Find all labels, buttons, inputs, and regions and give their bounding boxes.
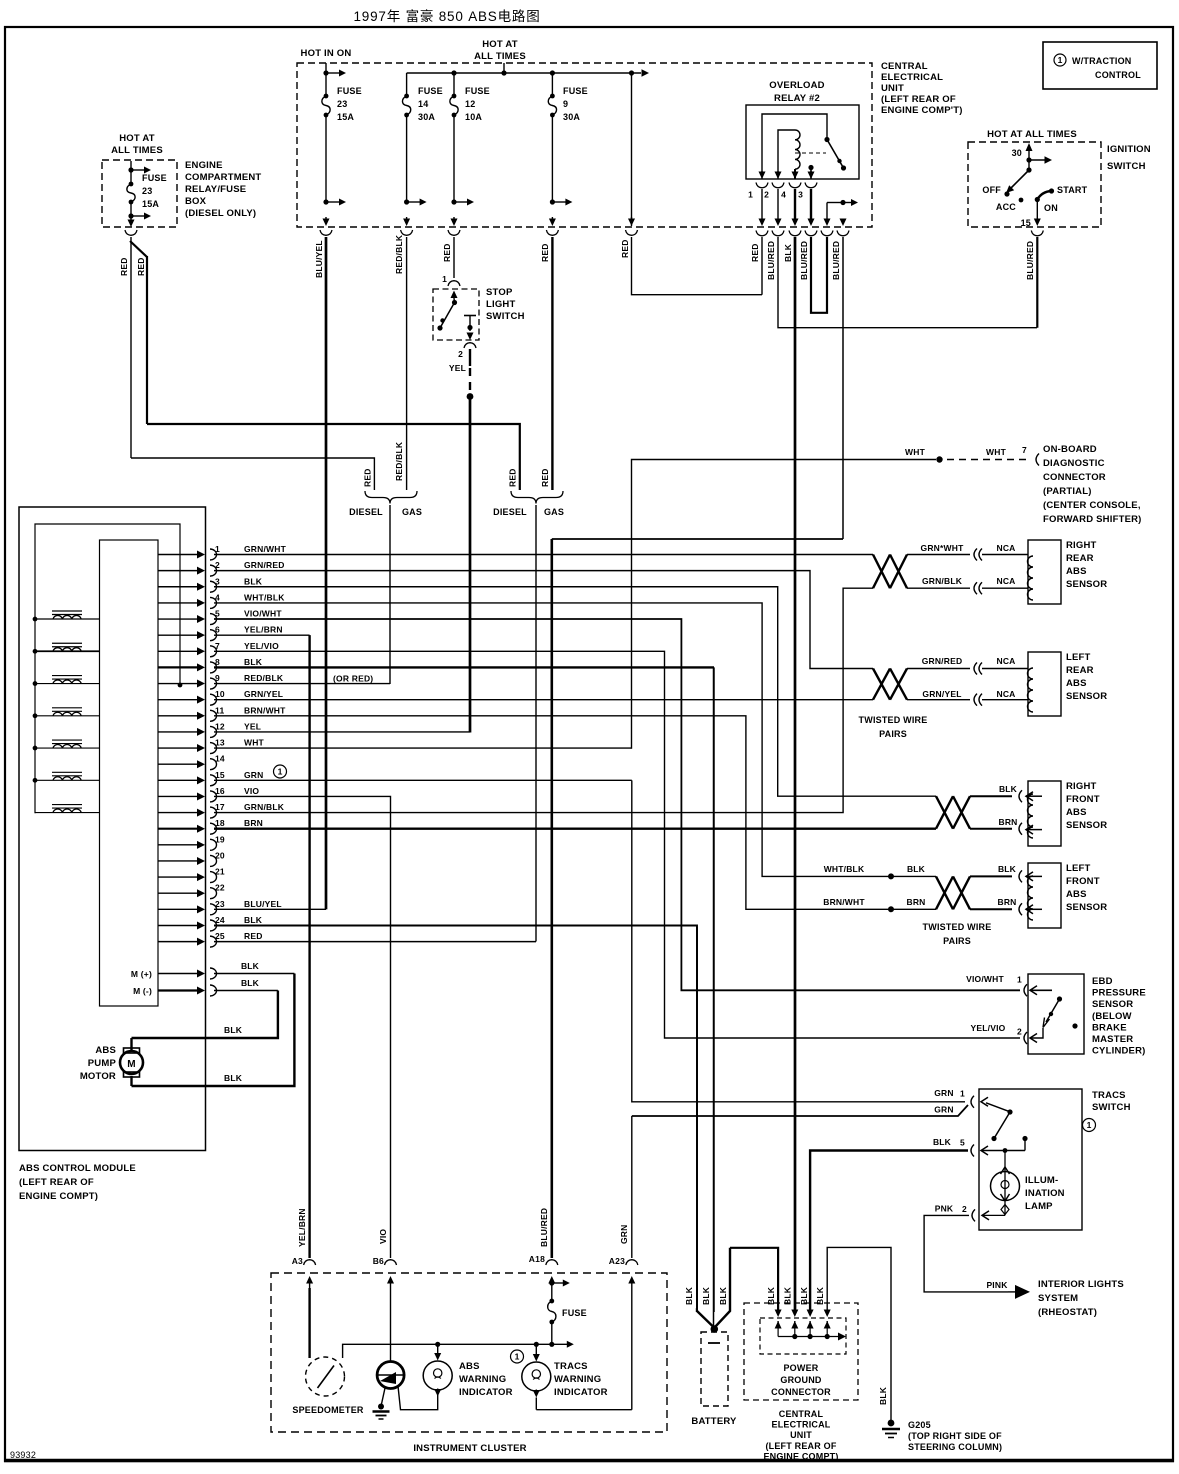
cluster fuse	[549, 1299, 554, 1304]
wire RED/BLK row9	[214, 683, 390, 685]
solenoid valve coil (row 9)	[33, 681, 38, 686]
svg-text:(RHEOSTAT): (RHEOSTAT)	[1038, 1307, 1097, 1318]
relay switch arm	[827, 140, 844, 169]
svg-text:VIO/WHT: VIO/WHT	[244, 609, 282, 619]
svg-text:ENGINE COMP'T): ENGINE COMP'T)	[881, 105, 963, 116]
stop light switch contact arm	[453, 295, 455, 299]
twisted pair right rear	[873, 555, 907, 589]
svg-text:POWER: POWER	[783, 1363, 818, 1373]
wire BLU/YEL row23	[214, 908, 326, 910]
svg-text:BLK: BLK	[244, 576, 263, 586]
svg-text:9: 9	[563, 99, 568, 109]
svg-text:10A: 10A	[465, 112, 482, 122]
wire BLK pin4/G205 bridge	[827, 1247, 891, 1421]
svg-text:30A: 30A	[563, 112, 580, 122]
wire RED feed to relay pin 1	[631, 73, 633, 226]
svg-text:GRN/RED: GRN/RED	[922, 656, 963, 666]
svg-text:SENSOR: SENSOR	[1066, 902, 1107, 913]
ABS pin 4	[158, 602, 199, 604]
svg-text:GRN/WHT: GRN/WHT	[244, 544, 287, 554]
svg-text:SENSOR: SENSOR	[1066, 691, 1107, 702]
wire WHT/BLK row4	[214, 603, 936, 877]
svg-text:2: 2	[1017, 1027, 1022, 1037]
svg-text:GAS: GAS	[544, 507, 564, 517]
svg-text:RED: RED	[119, 257, 129, 276]
svg-text:17: 17	[215, 802, 225, 812]
svg-text:MASTER: MASTER	[1092, 1034, 1133, 1045]
svg-text:5: 5	[960, 1138, 965, 1148]
EBD internal switch	[1030, 1028, 1043, 1038]
svg-text:BLK: BLK	[799, 1286, 809, 1305]
TRACS pin 1 GRN	[971, 1096, 974, 1108]
svg-text:BLU/YEL: BLU/YEL	[244, 899, 282, 909]
svg-text:RED: RED	[750, 243, 760, 262]
svg-text:30: 30	[1012, 148, 1022, 158]
ABS pin 2	[158, 570, 199, 572]
svg-text:M (-): M (-)	[133, 986, 152, 996]
svg-text:25: 25	[215, 931, 225, 941]
svg-text:1: 1	[215, 544, 220, 554]
svg-text:RED/BLK: RED/BLK	[394, 441, 404, 481]
svg-text:BLK: BLK	[718, 1286, 728, 1305]
wire WHT to diagnostic connector	[632, 460, 937, 749]
wire RED row25	[214, 941, 536, 943]
svg-text:WHT: WHT	[905, 447, 926, 457]
svg-text:BRN: BRN	[244, 818, 263, 828]
ABS pin 9	[158, 683, 199, 685]
svg-text:SENSOR: SENSOR	[1066, 579, 1107, 590]
relay pin 2 wire BLU/RED to ignition	[777, 189, 779, 222]
svg-text:ABS CONTROL MODULE: ABS CONTROL MODULE	[19, 1163, 136, 1174]
svg-text:UNIT: UNIT	[881, 83, 904, 94]
svg-text:2: 2	[215, 560, 220, 570]
svg-text:14: 14	[215, 754, 225, 764]
svg-text:12: 12	[465, 99, 475, 109]
svg-text:BRN: BRN	[998, 817, 1017, 827]
svg-text:OFF: OFF	[982, 185, 1001, 195]
svg-text:DIESEL: DIESEL	[493, 507, 527, 517]
svg-text:FUSE: FUSE	[563, 86, 588, 96]
svg-text:1: 1	[748, 190, 753, 200]
ABS module connector body box	[100, 540, 159, 1006]
svg-text:BRN: BRN	[906, 897, 925, 907]
ABS pin 24	[158, 924, 199, 926]
svg-text:BLK: BLK	[766, 1286, 776, 1305]
wire GRN/RED row2	[214, 571, 873, 669]
svg-text:INDICATOR: INDICATOR	[459, 1387, 513, 1398]
svg-text:7: 7	[1022, 445, 1027, 455]
svg-text:BLU/RED: BLU/RED	[766, 241, 776, 280]
svg-text:FUSE: FUSE	[465, 86, 490, 96]
svg-text:GRN: GRN	[619, 1225, 629, 1245]
wire RED from fuse 12 to stop light switch	[453, 237, 455, 278]
svg-text:2: 2	[962, 1204, 967, 1214]
ABS module inner boundary	[35, 524, 180, 813]
svg-text:START: START	[1057, 185, 1088, 195]
svg-text:UNIT: UNIT	[790, 1430, 812, 1440]
svg-text:CONNECTOR: CONNECTOR	[1043, 472, 1106, 483]
svg-text:PAIRS: PAIRS	[943, 936, 971, 946]
relay internal: pin1 riser and top rail to switch contact	[762, 114, 827, 179]
svg-text:SYSTEM: SYSTEM	[1038, 1293, 1078, 1304]
svg-text:RED: RED	[363, 468, 373, 487]
wire RED/BLK from fuse 14	[406, 237, 408, 490]
svg-text:TWISTED WIRE: TWISTED WIRE	[859, 715, 928, 725]
svg-text:LIGHT: LIGHT	[486, 299, 516, 310]
svg-text:BLK: BLK	[224, 1025, 243, 1035]
svg-text:10: 10	[215, 689, 225, 699]
solenoid valve coil (row 13)	[33, 746, 38, 751]
svg-text:PRESSURE: PRESSURE	[1092, 988, 1146, 999]
svg-text:CONTROL: CONTROL	[1095, 70, 1141, 80]
EBD pressure sensor box	[1028, 974, 1084, 1054]
ABS pin 11	[158, 715, 199, 717]
svg-text:ON: ON	[1044, 203, 1058, 213]
svg-text:GRN/RED: GRN/RED	[244, 560, 285, 570]
svg-text:CYLINDER): CYLINDER)	[1092, 1046, 1146, 1057]
svg-text:GROUND: GROUND	[780, 1375, 821, 1385]
solenoid valve coil (row 7)	[33, 649, 38, 654]
svg-text:WHT: WHT	[244, 738, 265, 748]
svg-text:BLK: BLK	[998, 864, 1017, 874]
svg-text:15: 15	[215, 770, 225, 780]
svg-text:ALL TIMES: ALL TIMES	[111, 145, 163, 156]
svg-text:BLK: BLK	[815, 1286, 825, 1305]
wire VIO/WHT row5 to EBD	[214, 619, 1020, 990]
svg-text:HOT AT ALL TIMES: HOT AT ALL TIMES	[987, 129, 1077, 140]
svg-text:2: 2	[764, 190, 769, 200]
relay pin 3 wire BLU/RED u-turn	[810, 189, 812, 222]
relay mechanical link dashed	[795, 152, 826, 154]
svg-text:8: 8	[215, 657, 220, 667]
svg-text:ABS: ABS	[1066, 807, 1087, 818]
svg-text:YEL/BRN: YEL/BRN	[244, 625, 283, 635]
ABS pin 21	[158, 876, 199, 878]
svg-text:BLU/RED: BLU/RED	[1025, 241, 1035, 280]
svg-text:BRN/WHT: BRN/WHT	[823, 897, 865, 907]
battery to power ground pin1 bridge	[730, 1248, 778, 1312]
solenoid valve coil (row 5)	[33, 617, 38, 622]
svg-text:1: 1	[515, 1352, 520, 1362]
ground G205	[888, 1420, 895, 1427]
ABS pin 8	[158, 666, 199, 668]
svg-text:VIO: VIO	[244, 786, 259, 796]
svg-text:A3: A3	[292, 1256, 303, 1266]
power ground pin wire x=794.8	[794, 1312, 796, 1313]
ABS pin 10	[158, 699, 199, 701]
svg-text:1: 1	[1087, 1120, 1092, 1130]
ABS pin 18	[158, 828, 199, 830]
wire BLK M(+)	[214, 973, 294, 975]
svg-text:A18: A18	[529, 1254, 545, 1264]
svg-text:LEFT: LEFT	[1066, 863, 1091, 874]
traction note circled 1 (pin 15)	[274, 765, 287, 778]
svg-text:BLU/RED: BLU/RED	[799, 241, 809, 280]
svg-text:23: 23	[337, 99, 347, 109]
wire RED fuse 9 down	[551, 237, 553, 490]
connector below engine box	[125, 230, 137, 235]
svg-text:GRN: GRN	[934, 1088, 954, 1098]
TRACS warning indicator	[511, 1350, 524, 1363]
svg-text:RED/BLK: RED/BLK	[244, 673, 284, 683]
svg-text:BRAKE: BRAKE	[1092, 1022, 1127, 1033]
svg-text:BLK: BLK	[907, 864, 926, 874]
svg-text:15: 15	[1021, 218, 1031, 228]
svg-text:(LEFT REAR OF: (LEFT REAR OF	[765, 1441, 836, 1451]
battery box	[701, 1332, 728, 1406]
svg-text:TRACS: TRACS	[1092, 1090, 1126, 1101]
svg-text:BLK: BLK	[241, 978, 260, 988]
W/TRACTION CONTROL legend box	[1043, 42, 1157, 89]
svg-text:ABS: ABS	[1066, 566, 1087, 577]
svg-text:ILLUM-: ILLUM-	[1025, 1175, 1058, 1186]
svg-text:GRN/BLK: GRN/BLK	[244, 802, 285, 812]
svg-text:INSTRUMENT CLUSTER: INSTRUMENT CLUSTER	[413, 1443, 526, 1454]
svg-text:FUSE: FUSE	[562, 1308, 587, 1318]
svg-text:GAS: GAS	[402, 507, 422, 517]
svg-text:BATTERY: BATTERY	[691, 1416, 737, 1427]
svg-text:RIGHT: RIGHT	[1066, 540, 1097, 551]
svg-text:(CENTER CONSOLE,: (CENTER CONSOLE,	[1043, 500, 1141, 511]
speedometer	[306, 1357, 345, 1396]
twisted pair left rear	[873, 669, 907, 700]
left rear ABS sensor	[1028, 652, 1061, 716]
svg-text:M (+): M (+)	[131, 969, 152, 979]
svg-text:NCA: NCA	[996, 576, 1015, 586]
overload relay #2 box	[746, 105, 859, 179]
ABS pin 16	[158, 795, 199, 797]
svg-text:ACC: ACC	[996, 202, 1016, 212]
ABS pin 3	[158, 586, 199, 588]
svg-text:13: 13	[215, 738, 225, 748]
wire YEL/VIO row7 to EBD	[214, 651, 1020, 1038]
svg-text:BLK: BLK	[244, 915, 263, 925]
svg-text:15A: 15A	[337, 112, 354, 122]
svg-text:4: 4	[781, 190, 786, 200]
central unit internal junction with arrow	[827, 202, 843, 204]
svg-text:ABS: ABS	[459, 1361, 480, 1372]
TRACS switch internals	[986, 1103, 1010, 1112]
svg-text:BRN/WHT: BRN/WHT	[244, 705, 286, 715]
svg-text:INATION: INATION	[1025, 1188, 1065, 1199]
ABS pin 22	[158, 892, 199, 894]
svg-text:RED: RED	[442, 243, 452, 262]
svg-text:BLK: BLK	[241, 961, 260, 971]
fuse 23 15A	[323, 70, 328, 75]
svg-text:BLK: BLK	[878, 1386, 888, 1405]
ABS pin 5	[158, 618, 199, 620]
svg-text:W/TRACTION: W/TRACTION	[1072, 56, 1132, 66]
svg-text:(TOP RIGHT SIDE OF: (TOP RIGHT SIDE OF	[908, 1431, 1002, 1441]
svg-text:5: 5	[215, 609, 220, 619]
ABS pin 20	[158, 860, 199, 862]
svg-text:FRONT: FRONT	[1066, 876, 1100, 887]
instrument cluster dashed box	[271, 1273, 667, 1432]
svg-text:GRN: GRN	[244, 770, 264, 780]
svg-text:FUSE: FUSE	[337, 86, 362, 96]
svg-text:30A: 30A	[418, 112, 435, 122]
svg-text:NCA: NCA	[996, 543, 1015, 553]
svg-text:WARNING: WARNING	[554, 1374, 601, 1385]
svg-text:GRN*WHT: GRN*WHT	[921, 543, 965, 553]
svg-text:4: 4	[215, 592, 220, 602]
svg-text:SWITCH: SWITCH	[1107, 161, 1146, 172]
stop light switch dashed box	[433, 289, 479, 340]
svg-text:BLK: BLK	[684, 1286, 694, 1305]
svg-text:BLK: BLK	[701, 1286, 711, 1305]
svg-text:YEL/BRN: YEL/BRN	[297, 1208, 307, 1247]
svg-text:BLK: BLK	[244, 657, 263, 667]
svg-text:1: 1	[278, 767, 283, 777]
svg-text:SWITCH: SWITCH	[1092, 1102, 1131, 1113]
power ground connector outer dashed box	[744, 1303, 858, 1400]
svg-text:NCA: NCA	[996, 689, 1015, 699]
svg-text:21: 21	[215, 867, 225, 877]
engine compartment relay/fuse box	[102, 160, 177, 227]
svg-text:COMPARTMENT: COMPARTMENT	[185, 172, 261, 183]
svg-text:STOP: STOP	[486, 287, 513, 298]
svg-text:VIO/WHT: VIO/WHT	[966, 974, 1004, 984]
power ground pin wire x=810.1	[809, 1312, 811, 1313]
solenoid valve coil (row 11)	[33, 713, 38, 718]
feed tick below ALL TIMES label	[503, 63, 505, 73]
ABS pin 12	[158, 731, 199, 733]
svg-text:ENGINE COMPT): ENGINE COMPT)	[763, 1451, 838, 1461]
svg-text:22: 22	[215, 883, 225, 893]
svg-text:3: 3	[215, 576, 220, 586]
wire RED horizontal y458 to diesel bracket left	[131, 458, 374, 490]
ABS pump motor	[130, 1038, 132, 1051]
svg-text:9: 9	[215, 673, 220, 683]
svg-text:CENTRAL: CENTRAL	[779, 1409, 824, 1419]
svg-text:INDICATOR: INDICATOR	[554, 1387, 608, 1398]
wire YEL thick to pin 12	[469, 396, 472, 733]
relay coil	[778, 130, 795, 179]
twisted pair left front	[936, 876, 970, 909]
svg-text:12: 12	[215, 721, 225, 731]
wire GRN/BLK row17	[214, 588, 873, 812]
svg-text:BLU/YEL: BLU/YEL	[314, 240, 324, 278]
ABS warning indicator	[437, 1344, 439, 1353]
svg-text:DIAGNOSTIC: DIAGNOSTIC	[1043, 458, 1105, 469]
stop light switch pin2 terminal	[464, 315, 476, 317]
svg-text:(LEFT REAR OF: (LEFT REAR OF	[19, 1177, 94, 1188]
wire YEL row12	[214, 731, 470, 733]
second GRN wire to A23	[632, 1105, 968, 1116]
wire YEL dashed option segment	[469, 349, 471, 366]
fuse 12 10A	[453, 73, 455, 96]
svg-text:MOTOR: MOTOR	[80, 1071, 116, 1082]
svg-text:TWISTED WIRE: TWISTED WIRE	[923, 922, 992, 932]
svg-text:REAR: REAR	[1066, 553, 1094, 564]
svg-text:BLK: BLK	[999, 784, 1018, 794]
fuse 14 30A	[406, 73, 408, 96]
svg-text:RED: RED	[508, 468, 518, 487]
ignition terminal 15 wire BLU/RED	[1036, 200, 1038, 219]
svg-text:DIESEL: DIESEL	[349, 507, 383, 517]
svg-text:1997年 富豪 850 ABS电路图: 1997年 富豪 850 ABS电路图	[353, 8, 540, 24]
svg-text:14: 14	[418, 99, 428, 109]
relay pin 1 wire RED	[761, 189, 763, 222]
svg-text:20: 20	[215, 850, 225, 860]
svg-text:GRN/BLK: GRN/BLK	[922, 576, 963, 586]
wire BRN row18 to right front sensor	[214, 828, 936, 830]
svg-text:23: 23	[142, 186, 152, 196]
svg-text:RED: RED	[620, 239, 630, 258]
ABS pin 13	[158, 747, 199, 749]
solenoid valve coil (row 17)	[35, 812, 100, 814]
ABS pin 1	[158, 554, 199, 556]
wire YEL/BRN row6 to cluster A3	[214, 634, 310, 636]
svg-text:ALL TIMES: ALL TIMES	[474, 51, 526, 62]
svg-text:STEERING COLUMN): STEERING COLUMN)	[908, 1442, 1002, 1452]
svg-text:M: M	[127, 1059, 136, 1070]
wire PNK to interior lights	[924, 1215, 1008, 1292]
wire GRN/YEL row10 to left rear sensor	[214, 699, 873, 701]
ignition ON contact	[1035, 197, 1040, 202]
central electrical unit dashed box	[297, 63, 872, 227]
svg-text:WHT: WHT	[986, 447, 1007, 457]
right front ABS sensor	[1028, 781, 1061, 846]
svg-text:RED: RED	[244, 931, 263, 941]
svg-text:PINK: PINK	[986, 1280, 1008, 1290]
wire GRN row15 to TRACS switch	[214, 779, 632, 781]
svg-text:YEL/VIO: YEL/VIO	[971, 1023, 1006, 1033]
svg-text:ABS: ABS	[95, 1045, 116, 1056]
ABS pin 6	[158, 634, 199, 636]
svg-text:SENSOR: SENSOR	[1066, 820, 1107, 831]
ABS pin 17	[158, 812, 199, 814]
power ground connector inner dashed box	[760, 1318, 846, 1354]
svg-text:FORWARD SHIFTER): FORWARD SHIFTER)	[1043, 514, 1142, 525]
wire BLK row8 to battery	[214, 666, 714, 668]
wire RED (diesel col 2)	[130, 241, 147, 257]
wire merged RED to pin 25	[535, 505, 537, 942]
ABS control module outer box	[19, 507, 206, 1151]
svg-text:SENSOR: SENSOR	[1092, 999, 1133, 1010]
svg-text:BLK: BLK	[933, 1137, 952, 1147]
power ground internal bus	[778, 1336, 838, 1338]
svg-text:19: 19	[215, 834, 225, 844]
svg-text:GRN: GRN	[934, 1105, 954, 1115]
svg-text:BLU/RED: BLU/RED	[831, 241, 841, 280]
wire BLU/RED from central unit to instrument cluster A18	[842, 221, 844, 223]
wire BRN/WHT row11	[214, 716, 936, 910]
svg-text:BOX: BOX	[185, 196, 207, 207]
TRACS pin 2 PNK	[972, 1209, 975, 1221]
svg-text:PUMP: PUMP	[88, 1058, 117, 1069]
svg-text:ABS: ABS	[1066, 889, 1087, 900]
svg-text:7: 7	[215, 641, 220, 651]
ignition START contact	[1049, 188, 1054, 193]
svg-text:BLK: BLK	[783, 1286, 793, 1305]
svg-text:2: 2	[458, 349, 463, 359]
svg-text:(OR RED): (OR RED)	[333, 674, 373, 684]
svg-text:11: 11	[215, 705, 224, 715]
svg-text:6: 6	[215, 625, 220, 635]
ignition rotor arm to OFF	[1028, 160, 1030, 170]
stabilizer ground	[382, 1388, 386, 1404]
voltage stabilizer symbol	[377, 1362, 404, 1389]
ignition OFF contact	[1004, 191, 1009, 196]
svg-text:BLK: BLK	[224, 1073, 243, 1083]
svg-text:RIGHT: RIGHT	[1066, 781, 1097, 792]
stop light switch pin 2 connector	[464, 343, 476, 348]
solenoid valve coil (row 15)	[33, 778, 38, 783]
fuse 9 30A	[551, 73, 553, 96]
svg-text:ELECTRICAL: ELECTRICAL	[772, 1420, 831, 1430]
wire RED (diesel col 1)	[130, 237, 132, 458]
